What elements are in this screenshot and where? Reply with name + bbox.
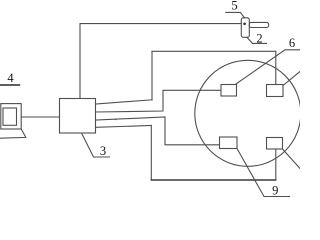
wire computer to controller bbox=[21, 116, 59, 118]
enclosure top edge bbox=[152, 50, 276, 52]
svg-text:5: 5 bbox=[231, 0, 237, 13]
label 3 leader bbox=[82, 134, 110, 157]
label 9 bbox=[272, 184, 278, 198]
sprayer 2 nozzle bbox=[249, 22, 268, 27]
label 2 leader and underline bbox=[247, 37, 267, 43]
leader electrode TR to edge bbox=[283, 72, 300, 86]
svg-text:9: 9 bbox=[272, 184, 278, 198]
svg-text:3: 3 bbox=[100, 144, 106, 158]
electrode TR bbox=[267, 85, 284, 97]
enclosure left edge lower bbox=[150, 126, 152, 181]
label 9 leader and underline bbox=[237, 149, 290, 197]
enclosure left edge upper bbox=[151, 51, 153, 100]
controller box 3 bbox=[60, 99, 96, 134]
junction dot on wire 3 bbox=[115, 119, 117, 121]
wire 3 controller to electrode BL bbox=[96, 117, 220, 145]
electrode TL bbox=[221, 85, 237, 97]
wire 1 controller to enclosure upper bbox=[96, 100, 153, 104]
wire controller to sprayer bbox=[80, 24, 241, 99]
label 6 leader and underline bbox=[236, 50, 300, 84]
label 5 bbox=[231, 0, 237, 13]
sprayer terminal dot bbox=[243, 23, 246, 26]
wire 2 controller to electrode TL bbox=[96, 90, 222, 112]
electrode BR bbox=[267, 138, 283, 150]
svg-text:2: 2 bbox=[256, 32, 262, 46]
label 5 underline and leader bbox=[226, 12, 245, 17]
enclosure bottom edge bbox=[151, 179, 275, 181]
wire electrode BR to enclosure bottom bbox=[275, 149, 277, 180]
electrode BL bbox=[220, 137, 238, 149]
svg-text:4: 4 bbox=[7, 71, 14, 85]
svg-text:6: 6 bbox=[289, 36, 295, 50]
leader electrode BR to edge bbox=[283, 149, 301, 169]
label 6 bbox=[289, 36, 295, 50]
label 3 bbox=[100, 144, 106, 158]
computer U4 (control terminal) bbox=[0, 104, 26, 139]
label 2 bbox=[256, 32, 262, 46]
wire 4 controller to enclosure lower bbox=[96, 126, 152, 128]
sprayer 2 (spray head body) bbox=[241, 18, 249, 38]
label 4 underline bbox=[0, 84, 20, 86]
wire enclosure top to electrode TR bbox=[275, 51, 277, 84]
drum circle bbox=[195, 60, 301, 166]
label 4 bbox=[7, 71, 14, 85]
